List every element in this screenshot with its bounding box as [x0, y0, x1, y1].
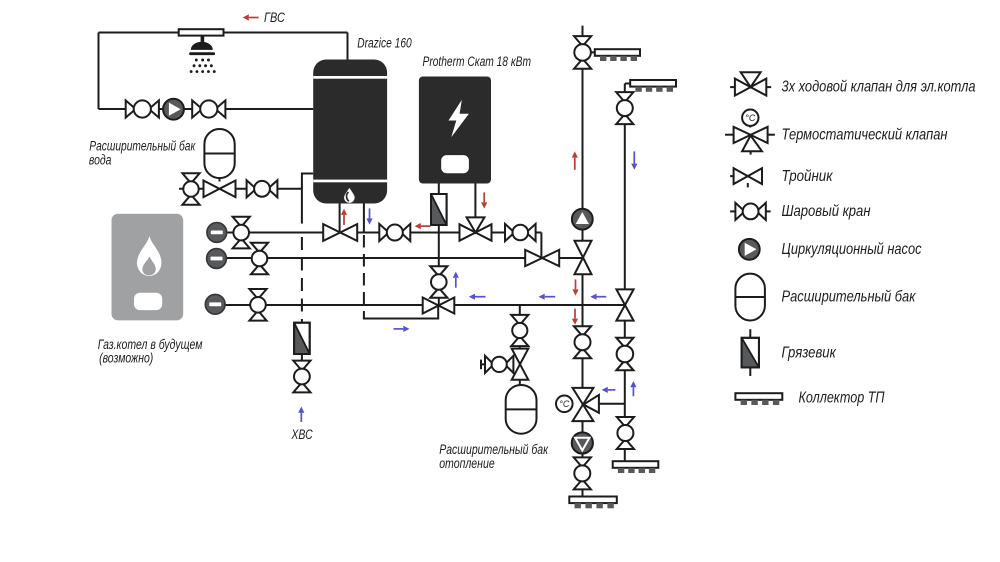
- circulation pump main riser: [572, 209, 593, 230]
- wire right riser x625: [624, 84, 626, 462]
- svg-text:Коллектор ТП: Коллектор ТП: [799, 390, 885, 407]
- wire valve to 3-way on pipe C: [438, 297, 440, 306]
- label Protherm: [423, 54, 532, 69]
- wire stem of expansion tank: [219, 178, 221, 181]
- legend text expansion tank: [782, 289, 917, 306]
- wire heating exp.tank branch riser: [519, 305, 521, 386]
- wire tank left stub y173: [302, 173, 313, 175]
- wire down into tank top: [347, 33, 349, 61]
- wire tank bottom right outlet: [363, 203, 365, 233]
- valve heating exp.tank branch: [511, 315, 528, 346]
- water heater tank Drazice 160: [313, 60, 387, 204]
- tee under tank hot outlet: [323, 224, 357, 241]
- arrow left on pipe C b: [539, 294, 556, 300]
- wire main riser x582: [582, 26, 584, 497]
- svg-text:ХВС: ХВС: [291, 427, 313, 442]
- label XHV: [291, 427, 313, 442]
- shower head: [179, 29, 224, 73]
- wire collector stub top-right: [625, 83, 630, 85]
- valve right riser above collector: [617, 417, 634, 449]
- svg-text:Циркуляционный насос: Циркуляционный насос: [782, 241, 922, 258]
- arrow up right riser at branch: [630, 381, 636, 396]
- legend symbol ball valve: [730, 203, 771, 220]
- circulation pump floor heating: [572, 432, 593, 453]
- cap plug pipe A: [207, 223, 227, 243]
- wire stub filter to valve XHV: [301, 354, 303, 362]
- wire capped end tick: [480, 360, 482, 370]
- wire filter down across pipes A-B: [438, 225, 440, 267]
- svg-text:Грязевик: Грязевик: [782, 344, 837, 361]
- 3-way valve for electric boiler: [460, 217, 492, 240]
- tee pipe B joins main riser: [575, 241, 592, 275]
- node pipe B (return): [217, 257, 584, 259]
- arrow down from Protherm: [481, 192, 487, 208]
- legend symbol collector: [735, 393, 782, 405]
- tee heating exp.tank branch: [512, 349, 529, 380]
- ball valve on cold water inlet: [293, 361, 310, 393]
- ball valve pipe A middle: [379, 224, 410, 241]
- arrow down main riser below pipe C: [572, 309, 578, 325]
- ball valve right of expansion tank: [247, 180, 278, 197]
- collector TP top-right: [630, 80, 676, 92]
- label Drazice 160: [357, 36, 412, 51]
- valve pipe A left: [233, 217, 250, 249]
- legend symbol expansion tank: [735, 274, 765, 321]
- dirt filter on cold water inlet: [294, 323, 310, 354]
- svg-text:Тройник: Тройник: [782, 168, 834, 185]
- wire riser x302 dashed (future): [301, 237, 303, 323]
- wire Protherm right outlet: [474, 184, 476, 219]
- svg-text:Термостатический клапан: Термостатический клапан: [782, 127, 948, 144]
- svg-text:отопление: отопление: [439, 456, 495, 471]
- valve above bottom collector: [574, 457, 591, 489]
- wire recirculation pipe to tank: [99, 108, 314, 110]
- svg-text:3х ходовой клапан для эл.котла: 3х ходовой клапан для эл.котла: [782, 79, 976, 96]
- legend symbol 3-way valve: [730, 72, 771, 95]
- svg-text:(возможно): (возможно): [99, 351, 153, 366]
- wire collector stub top-left: [591, 51, 595, 53]
- arrow up cold water inlet: [298, 407, 304, 423]
- svg-text:Расширительный бак: Расширительный бак: [782, 289, 917, 306]
- thermostatic 3-way valve: [556, 388, 599, 421]
- arrow up main riser: [572, 151, 578, 169]
- ball valve on recirculation left: [126, 100, 159, 117]
- wire bypass below pipe C: [363, 318, 438, 320]
- arrow DHW direction: [243, 14, 259, 20]
- wire bypass riser to 3-way valve: [437, 306, 439, 320]
- legend symbol dirt filter: [742, 329, 759, 376]
- electric boiler Protherm Skat 18kW: [419, 77, 491, 184]
- arrow flow left on pipe A: [415, 223, 431, 229]
- legend text circulation pump: [782, 241, 922, 258]
- wire heating exp.tank left branch: [481, 363, 512, 365]
- expansion tank heating: [506, 385, 537, 434]
- valve below pipe B at x439: [430, 266, 447, 298]
- drain valve vertical: [182, 173, 199, 204]
- valve at top of main riser: [574, 36, 591, 69]
- legend text ball valve: [782, 203, 871, 220]
- wire dashed future branch x364: [363, 235, 365, 319]
- svg-text:Шаровый кран: Шаровый кран: [782, 203, 871, 220]
- wire Protherm left outlet to filter: [438, 184, 440, 195]
- tee under expansion tank: [204, 181, 236, 198]
- wire branch thermostatic to right riser: [583, 403, 625, 405]
- legend symbol thermostatic valve: [725, 110, 775, 155]
- valve pipe B left: [251, 243, 268, 275]
- arrow down right riser: [631, 151, 637, 169]
- ball valve on recirculation right: [192, 100, 225, 117]
- ball valve capped side branch: [485, 356, 513, 373]
- svg-text:Расширительный бак: Расширительный бак: [89, 139, 195, 154]
- svg-text:°C: °C: [745, 113, 756, 123]
- arrow left on pipe C c: [590, 294, 606, 300]
- cap plug pipe C: [205, 294, 225, 314]
- legend text collector: [799, 390, 885, 407]
- dirt filter under Protherm: [431, 194, 447, 225]
- svg-text:°C: °C: [559, 399, 570, 409]
- wire riser x302 solid part: [301, 173, 303, 224]
- label expansion tank water: [89, 139, 196, 168]
- tee on pipe C at x438: [423, 298, 455, 314]
- valve below top-right collector: [616, 92, 633, 124]
- collector TP top-left: [595, 49, 640, 61]
- label expansion tank heating: [439, 442, 548, 471]
- wire expansion tank water to riser: [179, 188, 302, 190]
- wire shower bar to tank top: [224, 32, 348, 34]
- valve main riser below pipe C: [574, 326, 591, 358]
- wire DHW top from shower to left riser: [99, 32, 179, 34]
- legend text 3-way valve: [782, 79, 976, 96]
- wire left riser of shower loop: [98, 33, 100, 110]
- node pipe C (lower return): [215, 304, 625, 306]
- legend symbol circulation pump: [739, 239, 760, 260]
- legend text thermostatic valve: [782, 127, 948, 144]
- valve pipe C left: [249, 289, 266, 321]
- arrow hot up from tank: [341, 209, 347, 225]
- arrow cold down into tank: [366, 208, 372, 224]
- arrow right on bypass: [394, 326, 410, 332]
- label GVS: [264, 10, 285, 25]
- svg-text:Protherm Скат 18 кВт: Protherm Скат 18 кВт: [423, 54, 532, 69]
- expansion tank water: [204, 129, 234, 178]
- legend text dirt filter: [782, 344, 837, 361]
- legend text tee: [782, 168, 834, 185]
- svg-text:Расширительный бак: Расширительный бак: [439, 442, 548, 457]
- svg-text:ГВС: ГВС: [264, 10, 285, 25]
- collector TP bottom-right: [613, 461, 659, 473]
- svg-text:вода: вода: [89, 153, 112, 168]
- collector TP bottom-center: [569, 497, 617, 509]
- gas boiler (future): [112, 214, 184, 321]
- node pipe A (hot supply): [217, 232, 542, 234]
- arrow up into pipe B at x439: [453, 272, 459, 288]
- tee pipe C joins right riser: [616, 289, 633, 320]
- arrow left on pipe C a: [469, 294, 486, 300]
- valve right riser below pipe C: [616, 338, 633, 371]
- legend symbol tee: [730, 168, 762, 187]
- circulation pump recirculation: [163, 99, 184, 120]
- arrow down main riser above pipe C: [572, 279, 578, 295]
- cap plug pipe B: [207, 249, 227, 269]
- arrow left on thermostatic branch: [602, 387, 616, 393]
- svg-text:Drazice 160: Drazice 160: [357, 36, 412, 51]
- tee pipe B at x542: [525, 250, 559, 266]
- ball valve pipe A right: [505, 224, 536, 241]
- wire corner pipe A down to pipe B: [540, 233, 542, 259]
- label gas boiler: [98, 337, 203, 366]
- wire tank bottom left outlet: [339, 203, 341, 233]
